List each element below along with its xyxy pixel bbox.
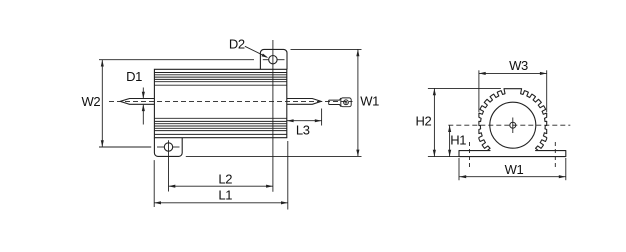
svg-text:W1: W1	[360, 94, 379, 109]
svg-text:L2: L2	[218, 172, 232, 187]
svg-text:D2: D2	[229, 37, 245, 52]
svg-text:W1: W1	[505, 162, 524, 177]
svg-text:W2: W2	[82, 94, 101, 109]
svg-text:H1: H1	[450, 133, 466, 148]
svg-text:D1: D1	[126, 69, 142, 84]
svg-text:W3: W3	[509, 58, 528, 73]
svg-text:H2: H2	[415, 113, 431, 128]
svg-text:L1: L1	[218, 187, 232, 202]
svg-text:L3: L3	[296, 122, 310, 137]
